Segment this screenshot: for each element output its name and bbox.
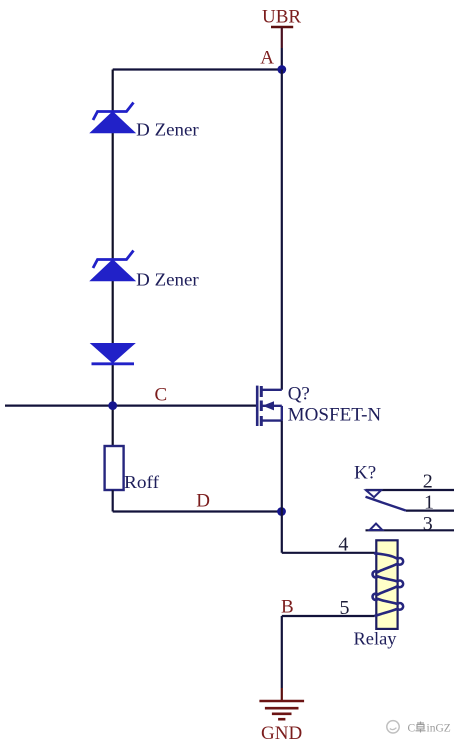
svg-text:K?: K?: [354, 463, 376, 484]
svg-text:2: 2: [423, 471, 433, 493]
svg-text:Roff: Roff: [124, 472, 159, 492]
transistor Q1 channel segment bottom: [260, 416, 263, 426]
svg-text:1: 1: [424, 492, 434, 514]
zener diode D1 triangle: [91, 112, 135, 133]
power UBR bar symbol: [271, 26, 293, 29]
svg-text:inGZ: inGZ: [427, 723, 451, 735]
watermark logo: [387, 721, 399, 733]
svg-text:D Zener: D Zener: [136, 270, 199, 290]
relay contact arm: [366, 497, 407, 511]
svg-text:Relay: Relay: [354, 629, 397, 649]
transistor Q1 bulk arrowhead: [263, 401, 275, 410]
relay contact arrowhead (pin 2): [366, 490, 381, 497]
svg-text:C: C: [408, 723, 416, 735]
ground stub: [281, 688, 283, 701]
svg-text:C: C: [155, 384, 168, 405]
svg-text:3: 3: [423, 513, 433, 535]
relay coil body K1: [376, 540, 397, 629]
diode D3 cathode bar: [92, 362, 135, 365]
relay pin 2 wire: [366, 489, 455, 491]
diode D3 triangle: [91, 344, 135, 363]
relay contact triangle (pin 3): [370, 524, 383, 530]
zener diode D2 triangle: [91, 260, 135, 281]
power UBR stub wire: [281, 27, 283, 48]
wire stub to node A: [281, 48, 283, 70]
svg-text:GND: GND: [261, 723, 302, 744]
svg-text:D Zener: D Zener: [136, 120, 199, 140]
svg-text:Q?: Q?: [288, 384, 310, 405]
zener diode D2 cathode bar: [93, 251, 134, 269]
svg-text:B: B: [281, 597, 294, 618]
wire node D horizontal: [113, 510, 282, 512]
transistor Q1 bulk line: [262, 405, 282, 407]
transistor Q1 channel segment top: [260, 386, 263, 397]
relay pin 1 wire: [406, 510, 454, 512]
wire resistor bottom to node D: [112, 490, 114, 512]
wire drain vertical from node A: [281, 70, 283, 390]
junction node A: [277, 65, 286, 74]
relay coil spiral: [373, 553, 404, 616]
transistor Q1 drain stub: [261, 389, 282, 391]
junction node C: [108, 401, 117, 410]
zener diode D1 cathode bar: [93, 103, 134, 121]
ground bar 4: [278, 718, 285, 721]
svg-text:A: A: [260, 48, 274, 69]
wire source vertical down: [281, 421, 283, 553]
ground bar 1: [259, 700, 304, 703]
wire pin 5: [282, 615, 375, 617]
resistor Roff: [105, 446, 124, 490]
ground bar 2: [265, 707, 299, 710]
transistor Q1 right vertical: [281, 406, 283, 421]
svg-text:D: D: [196, 490, 210, 511]
svg-text:UBR: UBR: [262, 6, 301, 27]
ground bar 3: [272, 712, 292, 715]
wire B vertical to ground: [281, 616, 283, 688]
wire top horizontal A: [113, 68, 282, 70]
svg-text:MOSFET-N: MOSFET-N: [288, 405, 382, 426]
transistor Q1 source stub: [261, 419, 282, 421]
wire pin 4: [282, 552, 377, 554]
transistor Q1 channel segment middle: [260, 401, 263, 412]
junction node D: [277, 507, 286, 516]
relay pin 3 wire: [366, 529, 455, 531]
wire left vertical trunk: [112, 70, 114, 448]
wire node C horizontal / gate lead: [5, 405, 257, 407]
transistor Q1 gate bar: [256, 386, 259, 426]
